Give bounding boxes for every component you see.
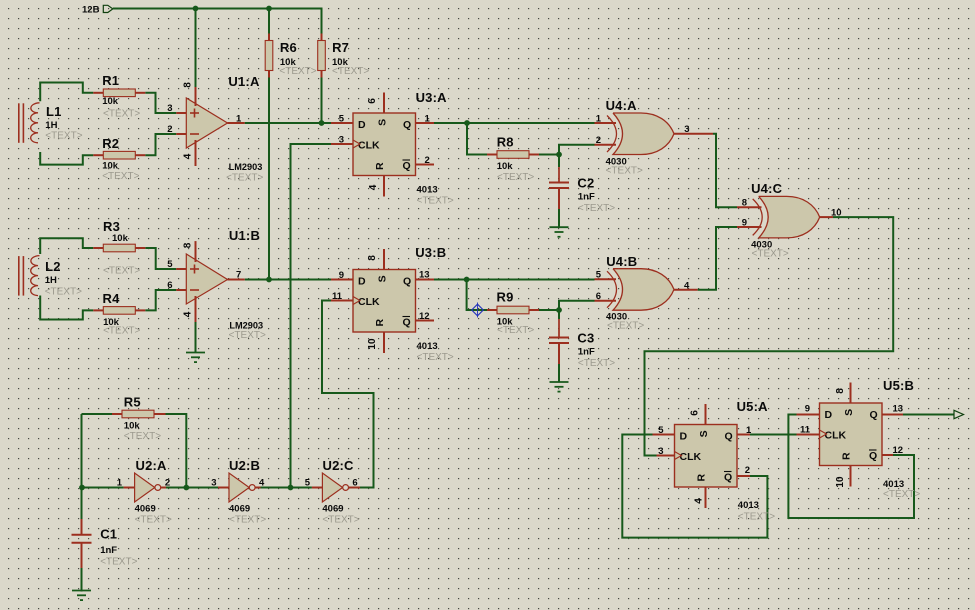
pin numbers U3:A xyxy=(339,98,431,191)
svg-text:7: 7 xyxy=(236,270,241,281)
label U4:C xyxy=(751,181,789,260)
svg-text:3: 3 xyxy=(658,446,663,457)
junction R6 net xyxy=(266,277,272,283)
svg-text:R: R xyxy=(696,473,708,481)
svg-text:4: 4 xyxy=(183,311,194,317)
svg-text:<TEXT>: <TEXT> xyxy=(578,203,615,214)
pin stub U4:B output pin4 xyxy=(674,289,698,291)
label U1:B xyxy=(229,228,266,341)
svg-text:4: 4 xyxy=(368,184,379,190)
pin stub U5:B pin12 Qbar xyxy=(882,454,894,456)
svg-text:L2: L2 xyxy=(45,259,61,274)
label U1:A xyxy=(226,74,263,184)
svg-text:10k: 10k xyxy=(124,421,141,432)
pin numbers U3:B xyxy=(332,255,430,350)
svg-text:2: 2 xyxy=(596,135,601,146)
op-amp U1:A xyxy=(186,87,227,166)
pin stub U3:B pin9 D xyxy=(331,279,353,281)
svg-text:4069: 4069 xyxy=(229,504,250,515)
svg-text:S: S xyxy=(377,119,389,126)
pin numbers U2:B xyxy=(211,478,265,489)
pin stub U2:A pin2 out xyxy=(161,487,166,489)
junction U2:B out xyxy=(288,485,294,491)
resistor R9 xyxy=(487,306,539,314)
svg-text:U2:C: U2:C xyxy=(323,458,355,473)
D flip-flop U5:A xyxy=(675,404,738,508)
junction Q13 net xyxy=(464,277,470,283)
svg-text:12: 12 xyxy=(419,311,430,322)
svg-text:10: 10 xyxy=(835,476,846,488)
resistor R3 xyxy=(93,244,145,252)
XOR gate U4:C xyxy=(753,196,820,238)
svg-text:9: 9 xyxy=(339,270,344,281)
svg-text:U4:A: U4:A xyxy=(606,98,638,113)
label L1 xyxy=(45,104,82,142)
wire R3 to U1:B pin5 xyxy=(145,248,176,269)
svg-text:8: 8 xyxy=(835,388,846,394)
svg-text:D: D xyxy=(358,276,366,288)
svg-text:<TEXT>: <TEXT> xyxy=(100,557,137,568)
pin stub U1:B pin5 xyxy=(176,268,186,270)
junction rail-R6 xyxy=(266,6,272,12)
wire R6 top xyxy=(268,9,270,34)
wire oscillator to U3:A CLK xyxy=(291,144,332,488)
label R1 xyxy=(102,73,140,120)
svg-text:5: 5 xyxy=(596,270,602,281)
wire rail to U1:A pin8 xyxy=(195,9,197,88)
label R9 xyxy=(497,290,535,337)
svg-text:10k: 10k xyxy=(102,96,119,107)
svg-text:R: R xyxy=(374,162,386,170)
svg-text:<TEXT>: <TEXT> xyxy=(45,131,82,142)
svg-text:C3: C3 xyxy=(577,331,594,346)
wire R5/C1 node vertical xyxy=(81,414,83,519)
svg-text:CLK: CLK xyxy=(358,140,380,152)
svg-text:13: 13 xyxy=(893,404,904,415)
svg-text:<TEXT>: <TEXT> xyxy=(322,515,359,526)
svg-text:U1:A: U1:A xyxy=(228,74,260,89)
D flip-flop U3:A xyxy=(353,93,416,197)
pin stub U3:A pin5 D xyxy=(331,122,353,124)
wire C1 bottom lead xyxy=(81,544,83,569)
label U3:B xyxy=(415,245,454,363)
svg-text:R8: R8 xyxy=(497,135,514,150)
svg-text:9: 9 xyxy=(805,404,810,415)
svg-text:1nF: 1nF xyxy=(578,192,595,203)
label C1 xyxy=(100,527,137,568)
capacitor C3 xyxy=(549,338,569,344)
svg-text:8: 8 xyxy=(367,255,378,261)
svg-text:4: 4 xyxy=(694,498,705,504)
pin stub U1:A pin3 xyxy=(176,112,186,114)
svg-text:6: 6 xyxy=(596,291,601,302)
pin stub R5 left xyxy=(112,413,122,415)
svg-text:R5: R5 xyxy=(124,395,141,410)
svg-text:5: 5 xyxy=(339,114,345,125)
svg-text:<TEXT>: <TEXT> xyxy=(607,321,644,332)
pin stub U1:A pin2 xyxy=(176,133,186,135)
svg-text:<TEXT>: <TEXT> xyxy=(229,515,266,526)
wire U2:B out to U2:C in xyxy=(261,487,312,489)
resistor R2 xyxy=(93,151,145,159)
svg-text:1: 1 xyxy=(746,425,752,436)
svg-text:C2: C2 xyxy=(577,176,594,191)
pin stub U5:A pin2 Qbar xyxy=(737,475,750,477)
resistor R4 xyxy=(93,307,145,315)
XOR gate U4:A xyxy=(607,113,674,155)
svg-text:U5:B: U5:B xyxy=(883,378,914,393)
wire C2 bottom lead xyxy=(558,188,560,209)
svg-text:10k: 10k xyxy=(497,161,514,172)
resistor R1 xyxy=(93,89,145,97)
svg-text:<TEXT>: <TEXT> xyxy=(738,512,775,523)
svg-text:Q: Q xyxy=(869,450,877,462)
svg-text:2: 2 xyxy=(167,124,172,135)
ground C3 xyxy=(550,382,569,392)
output terminal arrow xyxy=(954,410,964,418)
label L2 xyxy=(45,259,82,298)
wire R9 right to node xyxy=(539,309,560,311)
pin stub U1:A output pin1 xyxy=(228,122,245,124)
label U2:B xyxy=(229,458,266,526)
svg-text:10k: 10k xyxy=(102,161,119,172)
wire U5:B Q to output terminal xyxy=(903,414,954,416)
XOR gate U4:B xyxy=(607,269,674,311)
label U5:A xyxy=(737,399,776,523)
wire C3 top lead xyxy=(558,310,560,319)
D flip-flop U5:B xyxy=(820,383,883,487)
pin stub U5:A pin1 Q xyxy=(737,434,750,436)
pin stub U2:A pin1 xyxy=(124,487,135,489)
svg-text:U4:C: U4:C xyxy=(751,181,783,196)
pin stub U2:B pin3 xyxy=(218,487,229,489)
svg-text:5: 5 xyxy=(167,259,173,270)
wire L1 bottom loop xyxy=(40,152,93,165)
svg-text:U1:B: U1:B xyxy=(229,228,260,243)
svg-text:Q: Q xyxy=(403,160,411,172)
svg-text:3: 3 xyxy=(684,124,689,135)
inductor L1 xyxy=(19,103,40,143)
svg-text:5: 5 xyxy=(305,478,311,489)
pin numbers U5:B xyxy=(800,388,903,488)
svg-text:Q: Q xyxy=(724,472,732,484)
svg-text:R7: R7 xyxy=(332,40,349,55)
junction R9-C3 node xyxy=(556,307,562,313)
pin stub U5:B pin9 D xyxy=(797,414,820,416)
svg-text:S: S xyxy=(843,409,855,416)
svg-text:2: 2 xyxy=(425,155,430,166)
svg-text:4: 4 xyxy=(684,281,690,292)
pin stub U2:C pin5 xyxy=(312,487,323,489)
svg-text:2: 2 xyxy=(165,478,170,489)
pin stub U3:A pin2 Qbar xyxy=(416,164,435,166)
svg-text:2: 2 xyxy=(745,465,750,476)
wire R6 bottom to U1:B output net xyxy=(268,78,270,280)
wire R2 to U1:A pin2 xyxy=(145,134,176,155)
wire C2 top lead xyxy=(558,155,560,168)
svg-text:3: 3 xyxy=(339,135,344,146)
svg-text:<TEXT>: <TEXT> xyxy=(103,326,140,337)
svg-text:6: 6 xyxy=(690,410,701,416)
pin stub U4:C output pin10 xyxy=(820,216,833,218)
svg-text:4069: 4069 xyxy=(322,504,343,515)
label R7 xyxy=(332,40,369,77)
svg-text:S: S xyxy=(698,430,710,437)
svg-text:<TEXT>: <TEXT> xyxy=(497,172,534,183)
svg-text:Q: Q xyxy=(403,276,411,288)
svg-text:U4:B: U4:B xyxy=(606,254,637,269)
pin stub U4:B pin6 xyxy=(595,300,617,302)
svg-text:<TEXT>: <TEXT> xyxy=(135,515,172,526)
node marker blue diamond xyxy=(472,303,484,318)
wire U3:B CLK loop from U2:C output xyxy=(322,301,374,488)
pin numbers U4:B xyxy=(596,270,690,303)
svg-text:Q: Q xyxy=(403,317,411,329)
wire U4:A out to U4:C in8 xyxy=(713,134,737,208)
wire U5:A Q to U5:B CLK xyxy=(750,434,797,436)
svg-text:13: 13 xyxy=(419,270,430,281)
wire U1:A out to U3:A D xyxy=(245,122,331,124)
svg-text:8: 8 xyxy=(183,242,194,248)
svg-text:10: 10 xyxy=(367,338,378,350)
pin stub U1:B output pin7 xyxy=(228,279,245,281)
pin numbers U1:B xyxy=(167,242,241,317)
svg-text:6: 6 xyxy=(367,98,378,104)
svg-text:8: 8 xyxy=(183,82,194,88)
pin stub U2:B pin4 out xyxy=(255,487,260,489)
svg-text:LM2903: LM2903 xyxy=(229,321,263,331)
wire U2:A out to U2:B in xyxy=(166,487,218,489)
svg-text:1H: 1H xyxy=(45,275,57,286)
pin stub U4:C pin9 xyxy=(737,226,762,228)
junction R8-C2 node xyxy=(556,152,562,158)
wire L2 bottom loop xyxy=(40,296,93,320)
resistor R7 xyxy=(318,34,326,78)
svg-text:Q: Q xyxy=(725,431,733,443)
pin stub U3:B pin13 Q xyxy=(416,279,435,281)
pin stub U2:C pin6 out xyxy=(349,487,361,489)
svg-text:4013: 4013 xyxy=(738,500,759,511)
svg-text:<TEXT>: <TEXT> xyxy=(103,266,140,277)
svg-text:<TEXT>: <TEXT> xyxy=(606,166,643,177)
junction Q1 net xyxy=(464,120,470,126)
pin stub U3:A pin1 Q xyxy=(416,122,435,124)
wire node to U4:A in2 xyxy=(559,145,595,155)
svg-text:3: 3 xyxy=(167,103,172,114)
label R2 xyxy=(102,136,139,182)
svg-text:12В: 12В xyxy=(82,5,100,16)
op-amp U1:B xyxy=(186,241,227,352)
wire L1 top loop xyxy=(40,83,93,102)
svg-text:R4: R4 xyxy=(103,291,121,306)
wire U3:A Q to U4:A in1 xyxy=(434,122,595,124)
pin stub U4:A output pin3 xyxy=(674,133,713,135)
label U2:C xyxy=(322,458,359,526)
svg-text:10k: 10k xyxy=(112,233,129,244)
pin stub U5:B pin11 CLK xyxy=(797,434,820,436)
svg-text:11: 11 xyxy=(332,291,343,302)
svg-text:C1: C1 xyxy=(100,527,117,542)
svg-text:1: 1 xyxy=(117,478,123,489)
pin stub U4:A pin1 xyxy=(595,122,617,124)
svg-text:R2: R2 xyxy=(102,136,119,151)
wire C1 top red lead xyxy=(81,519,83,535)
svg-text:3: 3 xyxy=(211,478,216,489)
label R3 xyxy=(103,219,140,277)
label C2 xyxy=(577,176,615,215)
pin numbers U4:A xyxy=(596,114,690,147)
pin stub U4:B pin5 xyxy=(595,278,617,280)
wire R4 to U1:B pin6 xyxy=(145,290,176,310)
junction C1 node xyxy=(79,485,85,491)
label R4 xyxy=(103,291,141,337)
pin stub U3:B pin11 CLK xyxy=(331,300,353,302)
svg-text:12: 12 xyxy=(893,445,904,456)
svg-text:R: R xyxy=(374,318,386,326)
inverter U2:A xyxy=(135,473,161,502)
svg-text:1nF: 1nF xyxy=(578,347,595,358)
label R5 xyxy=(124,395,161,443)
ground U1:B pin4 xyxy=(186,353,205,363)
label U4:A xyxy=(606,98,643,177)
wire U5:A Qbar feedback to D xyxy=(622,435,767,538)
svg-text:4013: 4013 xyxy=(417,185,438,196)
pin stub R5 right xyxy=(154,413,166,415)
pin numbers U5:A xyxy=(658,410,752,504)
svg-text:R9: R9 xyxy=(497,290,514,305)
wire R5 right down to U2:A out xyxy=(166,414,187,488)
D flip-flop U3:B xyxy=(353,249,416,353)
wire node to U2:A input xyxy=(82,487,124,489)
pin numbers U2:C xyxy=(305,478,358,489)
pin stub U5:B pin13 Q xyxy=(882,414,904,416)
svg-text:<TEXT>: <TEXT> xyxy=(45,287,82,298)
svg-text:11: 11 xyxy=(800,425,811,436)
svg-text:<TEXT>: <TEXT> xyxy=(279,66,316,77)
svg-text:4069: 4069 xyxy=(135,504,156,515)
label U4:B xyxy=(606,254,644,332)
junction U2:A out xyxy=(183,485,189,491)
svg-text:D: D xyxy=(358,119,366,131)
svg-text:CLK: CLK xyxy=(680,451,702,463)
power terminal 12V xyxy=(82,5,113,16)
pin stub U3:A pin3 CLK xyxy=(331,143,353,145)
svg-text:D: D xyxy=(825,409,833,421)
svg-text:D: D xyxy=(680,431,688,443)
svg-text:<TEXT>: <TEXT> xyxy=(497,325,534,336)
svg-text:<TEXT>: <TEXT> xyxy=(103,109,140,120)
pin stub U1:B pin6 xyxy=(176,289,186,291)
resistor R8 xyxy=(487,151,539,159)
svg-text:<TEXT>: <TEXT> xyxy=(417,352,454,363)
svg-text:<TEXT>: <TEXT> xyxy=(417,196,454,207)
inverter U2:B xyxy=(229,473,255,502)
svg-text:CLK: CLK xyxy=(358,296,380,308)
wire U1:B out to U3:B D xyxy=(245,279,331,281)
wire U3:B Q to U4:B in5 xyxy=(434,279,595,281)
inductor L2 xyxy=(19,256,40,296)
svg-text:6: 6 xyxy=(167,280,172,291)
wire Q1 branch down to R8 xyxy=(467,123,487,155)
capacitor C1 xyxy=(72,535,92,543)
svg-text:4013: 4013 xyxy=(417,341,438,352)
svg-text:1H: 1H xyxy=(45,120,57,131)
label R8 xyxy=(497,135,535,184)
wire U4:C out to U5:A CLK xyxy=(645,217,894,455)
svg-text:<TEXT>: <TEXT> xyxy=(229,330,266,341)
svg-text:6: 6 xyxy=(352,478,357,489)
pin stub U3:B pin12 Qbar xyxy=(416,320,435,322)
svg-text:1: 1 xyxy=(425,114,431,125)
svg-text:9: 9 xyxy=(742,217,747,228)
svg-text:R6: R6 xyxy=(280,40,297,55)
svg-text:L1: L1 xyxy=(46,104,62,119)
svg-text:U2:B: U2:B xyxy=(229,458,260,473)
pin numbers U1:A xyxy=(167,82,242,160)
svg-text:LM2903: LM2903 xyxy=(229,162,263,172)
capacitor C2 xyxy=(549,183,569,189)
svg-text:<TEXT>: <TEXT> xyxy=(332,66,369,77)
label U3:A xyxy=(416,90,454,207)
svg-text:4: 4 xyxy=(183,153,194,159)
pin numbers U2:A xyxy=(117,478,170,489)
ground C2 xyxy=(550,227,569,237)
svg-text:1nF: 1nF xyxy=(100,545,117,556)
wire R7 bottom to U1:A output net xyxy=(321,78,323,124)
svg-text:10: 10 xyxy=(831,208,842,219)
svg-text:4: 4 xyxy=(259,478,265,489)
pin stub U4:C pin8 xyxy=(737,206,762,208)
junction R7 net xyxy=(319,120,325,126)
wire Q13 branch down to R9 xyxy=(467,280,487,311)
resistor R5 xyxy=(112,410,164,418)
svg-text:<TEXT>: <TEXT> xyxy=(752,249,789,260)
svg-text:U5:A: U5:A xyxy=(737,399,769,414)
svg-text:U2:A: U2:A xyxy=(136,458,168,473)
resistor R6 xyxy=(265,34,273,78)
wire U4:B out to U4:C in9 xyxy=(698,227,737,290)
wire node to U4:B in6 xyxy=(559,301,595,310)
svg-text:1: 1 xyxy=(596,114,602,125)
label R6 xyxy=(279,40,316,77)
label U2:A xyxy=(135,458,172,526)
svg-text:U3:A: U3:A xyxy=(416,90,448,105)
svg-text:<TEXT>: <TEXT> xyxy=(124,431,161,442)
svg-text:Q: Q xyxy=(403,119,411,131)
svg-text:<TEXT>: <TEXT> xyxy=(226,173,263,184)
svg-text:R1: R1 xyxy=(102,73,119,88)
svg-text:<TEXT>: <TEXT> xyxy=(883,489,920,500)
pin stub U5:A pin5 D xyxy=(653,434,675,436)
svg-text:<TEXT>: <TEXT> xyxy=(578,358,615,369)
wire R5 left xyxy=(82,413,113,415)
label U5:B xyxy=(883,378,920,500)
label C3 xyxy=(577,331,615,370)
wire R8 right to node xyxy=(539,154,560,156)
svg-text:1: 1 xyxy=(236,114,242,125)
svg-text:<TEXT>: <TEXT> xyxy=(102,171,139,182)
wire 12V rail xyxy=(113,9,322,34)
svg-text:U3:B: U3:B xyxy=(415,245,446,260)
svg-text:CLK: CLK xyxy=(825,430,847,442)
svg-text:S: S xyxy=(377,275,389,282)
wire L2 top loop xyxy=(40,238,93,254)
svg-text:5: 5 xyxy=(658,425,664,436)
wire R1 to U1:A pin3 xyxy=(145,93,176,113)
junction rail-U1A xyxy=(193,6,199,12)
inverter U2:C xyxy=(322,473,348,502)
svg-text:Q: Q xyxy=(870,409,878,421)
